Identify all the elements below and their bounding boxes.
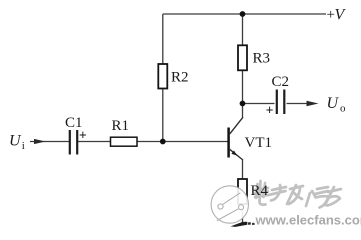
wire: input segment Ui to C1 xyxy=(30,141,69,143)
node C: collector junction xyxy=(240,101,246,107)
watermark chinese text (stylized strokes) xyxy=(255,181,341,208)
transistor VT1 xyxy=(229,117,243,159)
input arrow xyxy=(34,139,46,144)
svg-text:U: U xyxy=(327,95,340,112)
node A: base junction xyxy=(160,139,166,145)
svg-text:R1: R1 xyxy=(112,118,130,134)
wire: R3 to collector xyxy=(242,71,244,118)
wire: R4 to ground xyxy=(242,204,244,223)
resistor R1 xyxy=(111,137,138,146)
wire: R1 to transistor base xyxy=(137,141,228,143)
capacitor C1 xyxy=(70,130,77,155)
node B: supply rail junction xyxy=(240,11,246,17)
resistor R3 xyxy=(238,45,247,70)
capacitor C2 xyxy=(277,90,285,115)
svg-text:+: + xyxy=(266,102,274,117)
resistor R2 xyxy=(158,64,167,89)
wire: collector node to C2 xyxy=(243,103,275,105)
svg-text:+: + xyxy=(79,127,87,142)
wire: left drop from rail to R2 xyxy=(162,14,164,64)
wire: emitter down to R4 xyxy=(242,159,244,179)
svg-text:C2: C2 xyxy=(272,74,290,90)
resistor R4 xyxy=(238,179,247,204)
wire: C2 to output arrow xyxy=(287,103,309,105)
wire: C1 to R1 xyxy=(78,141,111,143)
wire: top supply rail xyxy=(30,14,326,223)
svg-text:V: V xyxy=(335,7,347,24)
wire: rail node down to R3 xyxy=(242,14,244,45)
svg-text:R4: R4 xyxy=(251,183,269,199)
output arrow xyxy=(307,101,319,107)
svg-text:VT1: VT1 xyxy=(245,135,273,151)
svg-text:o: o xyxy=(340,103,346,115)
ground xyxy=(231,222,255,227)
svg-text:U: U xyxy=(9,133,22,150)
svg-text:R3: R3 xyxy=(253,51,271,67)
svg-text:R2: R2 xyxy=(171,70,189,86)
watermark logo circle xyxy=(211,186,248,223)
wire: R2 bottom to base node xyxy=(162,89,164,143)
svg-text:www.elecfans.com: www.elecfans.com xyxy=(255,213,361,228)
svg-text:i: i xyxy=(22,140,25,152)
